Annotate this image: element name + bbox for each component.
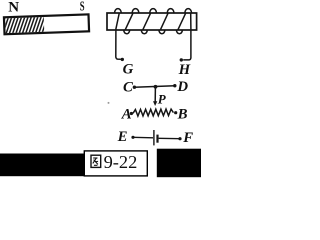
terminal dot B [174, 111, 177, 114]
junction node on CD wire [154, 85, 158, 89]
terminal dot E [131, 136, 134, 139]
coil crossing wire 3 [143, 13, 151, 30]
svg-text:G: G [123, 62, 134, 78]
battery short plate [156, 135, 158, 143]
svg-text:H: H [178, 62, 191, 78]
right black mask bar [157, 149, 201, 178]
figure caption box [84, 151, 147, 176]
svg-text:S: S [80, 0, 85, 14]
wire lead from coil to H [183, 13, 191, 60]
resistor AB zigzag [133, 109, 173, 116]
battery long plate [153, 130, 155, 145]
wire E to battery [133, 136, 153, 139]
caption glyph TU (figure) [91, 155, 101, 167]
coil turn 3 top arc [150, 9, 157, 14]
svg-text:F: F [182, 130, 193, 146]
coil crossing wire 4 [160, 13, 168, 30]
terminal dot C [133, 86, 136, 89]
wire C to D [134, 86, 174, 88]
coil turn 2 top arc [132, 9, 139, 14]
terminal dot H [180, 58, 183, 61]
svg-text:P: P [158, 91, 167, 106]
wire lead from coil to G [116, 13, 121, 59]
magnet bar (N-S) [0, 12, 89, 36]
coil L1 core [107, 13, 197, 30]
coil turn 1 top arc [115, 9, 122, 14]
svg-text:9-22: 9-22 [104, 152, 138, 172]
svg-text:C: C [123, 80, 133, 96]
coil turn 5 top arc [185, 9, 192, 14]
coil bottom arc 1 [124, 30, 130, 34]
coil crossing wire 2 [125, 13, 133, 30]
terminal dot A [130, 112, 133, 115]
wire battery to F [159, 137, 180, 139]
svg-text:B: B [177, 106, 188, 122]
slider arrow P [154, 87, 156, 102]
scan speck [108, 102, 110, 104]
coil crossing wire 5 [178, 13, 186, 30]
terminal dot D side [173, 84, 176, 87]
coil bottom arc 4 [176, 30, 182, 34]
left black mask bar [0, 154, 84, 177]
terminal dot F [178, 137, 181, 140]
svg-text:N: N [8, 0, 19, 16]
svg-text:D: D [176, 79, 188, 95]
terminal dot G [121, 58, 124, 61]
coil bottom arc 3 [159, 30, 165, 34]
coil bottom arc 2 [141, 30, 147, 34]
svg-text:E: E [117, 129, 128, 145]
coil turn 4 top arc [167, 9, 174, 14]
